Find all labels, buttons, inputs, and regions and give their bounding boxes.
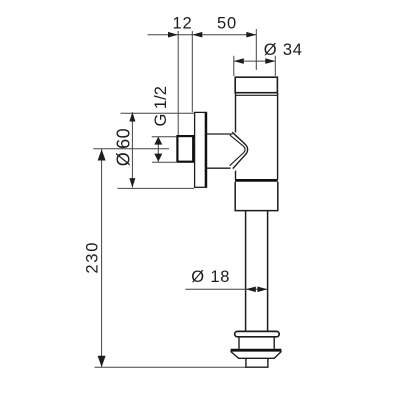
- svg-text:230: 230: [84, 241, 102, 274]
- lower body: [235, 182, 278, 211]
- arrow Ø34 right: [265, 58, 275, 64]
- svg-text:Ø 34: Ø 34: [264, 41, 303, 59]
- connecting pipe bottom edge: [207, 167, 231, 169]
- arrow 50 left: [192, 32, 202, 38]
- extension line Ø34 left: [233, 56, 235, 76]
- Ø60 dim line: [131, 112, 133, 187]
- dim line Ø34: [234, 60, 275, 62]
- G1/2 ext top: [152, 136, 177, 138]
- wall flange thick right edge: [205, 112, 207, 187]
- dome bulge inner: [230, 135, 245, 166]
- cone nut thick top: [231, 349, 282, 352]
- mid cylinder right: [273, 337, 275, 349]
- svg-text:12: 12: [173, 15, 193, 33]
- mid cylinder left: [238, 337, 240, 349]
- tailpiece: [246, 359, 268, 367]
- cone nut sides: [231, 351, 282, 358]
- wall flange plate: [195, 112, 207, 187]
- Ø60 arrow bottom: [129, 178, 135, 188]
- extension line wall face: [191, 31, 193, 112]
- G1/2 arrow up: [154, 137, 162, 145]
- flush pipe right edge: [267, 211, 269, 332]
- 230 arrow top: [98, 149, 106, 160]
- inlet cap nut: [235, 77, 277, 93]
- connecting pipe top edge: [207, 133, 233, 135]
- 230 dim line: [101, 149, 103, 367]
- svg-text:Ø: Ø: [113, 152, 133, 166]
- bottom extension line: [95, 366, 246, 368]
- extension line Ø34 right: [274, 56, 276, 76]
- inlet groove line: [236, 94, 278, 96]
- Ø18 arrow right: [257, 287, 267, 293]
- Ø18 arrow left: [246, 287, 256, 293]
- dim line 12/50: [148, 34, 257, 36]
- Ø60 ext top: [121, 112, 195, 114]
- G1/2 dim line: [157, 137, 159, 162]
- extension line nipple face: [177, 31, 179, 136]
- valve body left edge upper: [235, 93, 237, 133]
- Ø18 leader line: [185, 288, 267, 290]
- flush pipe left edge: [245, 211, 247, 332]
- arrow 50 right: [246, 32, 256, 38]
- G1/2 ext bottom: [152, 161, 176, 163]
- svg-text:50: 50: [217, 15, 237, 33]
- dome bulge outer: [232, 132, 247, 168]
- axis leader line: [93, 148, 169, 150]
- center line top: [255, 29, 257, 70]
- body separation thick line: [235, 179, 278, 182]
- Ø60 arrow top: [129, 112, 135, 122]
- valve body left edge lower: [235, 171, 237, 180]
- svg-text:60: 60: [113, 128, 133, 149]
- 230 arrow bottom: [98, 356, 106, 367]
- G1/2 arrow down: [154, 154, 162, 162]
- valve body right edge: [277, 93, 279, 180]
- svg-text:G 1/2: G 1/2: [152, 86, 170, 126]
- arrow Ø34 left: [234, 58, 244, 64]
- G1/2 nipple: [177, 136, 193, 162]
- Ø60 ext bottom: [118, 187, 195, 189]
- svg-text:Ø 18: Ø 18: [191, 268, 230, 286]
- washer stadium: [235, 331, 280, 336]
- arrow 12 left: [168, 32, 178, 38]
